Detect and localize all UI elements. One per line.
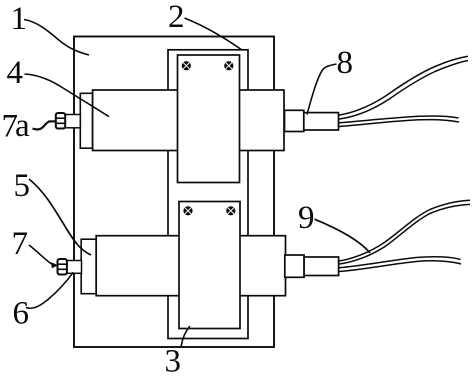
leader 9: [315, 219, 371, 253]
lower cable gland 9: [304, 257, 339, 276]
lower cylinder 5: end cap: [81, 239, 96, 294]
leader 7a: [33, 121, 57, 129]
lower wire 4: [339, 261, 461, 272]
svg-text:6: 6: [13, 296, 30, 332]
upper cable gland 8: [304, 113, 339, 130]
lower connector small block: [285, 255, 304, 277]
base plate 1: [74, 37, 274, 348]
leader 4: [25, 74, 110, 117]
leader 3: [181, 326, 190, 347]
lower inlet pipe 6: [67, 261, 82, 274]
leader 7: [29, 245, 52, 264]
svg-text:2: 2: [168, 0, 185, 35]
upper cylinder 4: end cap: [80, 93, 92, 148]
leader 5: [29, 179, 91, 255]
screw lower-right: [226, 206, 235, 215]
svg-text:7: 7: [12, 226, 29, 262]
screw lower-left: [183, 206, 192, 215]
lower wire 2: [339, 204, 470, 264]
upper wire 3: [339, 116, 459, 123]
leader 2: [185, 18, 243, 50]
svg-text:9: 9: [298, 200, 315, 236]
leader 6: [26, 272, 73, 308]
leader 1: [24, 20, 89, 56]
lower nut 7: [57, 259, 67, 275]
svg-text:8: 8: [337, 45, 354, 81]
svg-text:5: 5: [14, 168, 31, 204]
screw upper-right: [224, 61, 233, 70]
svg-text:3: 3: [165, 344, 182, 380]
lower cylinder 5: body: [96, 236, 285, 296]
mounting frame: [168, 50, 248, 339]
lower bracket 3: [179, 202, 240, 329]
leader 8: [307, 64, 337, 115]
upper wire 2: [339, 61, 469, 120]
upper bracket 2: [178, 55, 240, 183]
svg-text:4: 4: [7, 55, 24, 91]
upper wire 4: [339, 120, 460, 127]
lower wire 1: [339, 200, 470, 261]
arrow 7: [51, 262, 58, 268]
upper cylinder 4: body: [93, 90, 284, 151]
svg-text:a: a: [15, 108, 30, 144]
upper wire 1: [339, 56, 469, 115]
lower wire 3: [339, 257, 461, 268]
upper inlet pipe: [65, 115, 81, 128]
upper nut 7a: [56, 113, 66, 129]
screw upper-left: [182, 61, 191, 70]
upper connector small block: [285, 110, 304, 131]
